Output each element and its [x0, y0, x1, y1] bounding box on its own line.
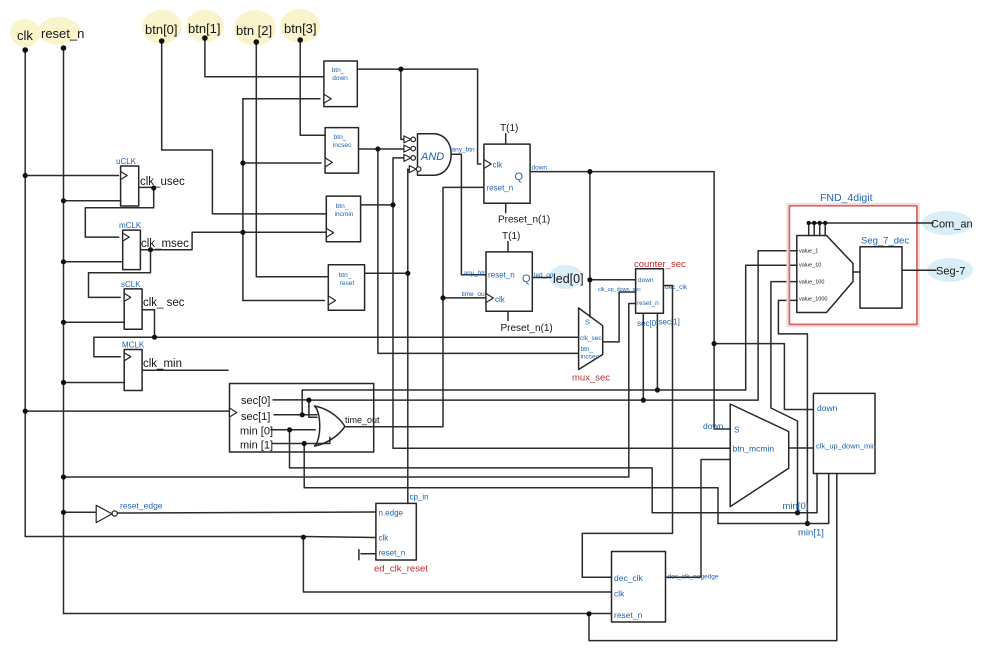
flip-flop divider mCLK — [119, 221, 142, 270]
wire btn clock to btn_incsec — [243, 162, 321, 164]
svg-text:min[1]: min[1] — [798, 528, 824, 539]
svg-text:incmin: incmin — [335, 211, 354, 218]
svg-text:btn_mcmin: btn_mcmin — [733, 444, 775, 454]
mux btn_mcmin — [730, 404, 789, 507]
gate AND U1 — [418, 134, 452, 176]
svg-text:value_1: value_1 — [799, 249, 818, 255]
wire min0 into OR — [271, 429, 315, 431]
node btn1 start — [202, 35, 208, 41]
junction btn_incsec out — [375, 146, 380, 151]
svg-text:btn_: btn_ — [334, 134, 347, 141]
svg-text:sec[0]: sec[0] — [637, 319, 658, 328]
wire reset_n to uCLK — [64, 200, 121, 202]
wire btn clock vertical — [242, 99, 244, 301]
svg-text:T(1): T(1) — [502, 231, 520, 242]
wire reset_n to MCLK — [64, 382, 125, 384]
svg-text:mux_sec: mux_sec — [572, 373, 610, 384]
wire reset_n branch to clk_up_down_min bottom — [589, 474, 837, 641]
wire btn clock to btn_down — [243, 98, 320, 100]
svg-text:clk: clk — [17, 28, 33, 43]
svg-text:clk: clk — [495, 295, 506, 304]
junction reset sCLK — [61, 320, 66, 325]
junction min0 riser — [795, 510, 800, 515]
node btn2 start — [253, 39, 259, 45]
wire time_out net vertical — [345, 187, 484, 426]
wire min0 row — [652, 474, 817, 513]
block Seg_7_dec — [860, 247, 902, 308]
wire min0 riser to FND value_100 — [771, 282, 798, 513]
node btn2 highlight — [234, 10, 276, 46]
node btn0 highlight — [142, 10, 182, 44]
svg-text:Com_an: Com_an — [931, 219, 973, 231]
svg-text:Seg-7: Seg-7 — [936, 266, 965, 278]
svg-text:value_100: value_100 — [799, 280, 824, 286]
svg-text:clk: clk — [379, 534, 390, 543]
wire min1 stub — [272, 437, 330, 443]
block btn_incsec — [325, 128, 358, 174]
svg-text:reset_edge: reset_edge — [120, 501, 163, 511]
wire sec1 net — [656, 313, 658, 390]
junction clk_msec — [148, 247, 153, 252]
wire sec1 long row to FND value_10 — [302, 265, 797, 415]
wire sec1 into OR — [274, 414, 317, 416]
svg-text:reset_n: reset_n — [487, 184, 514, 193]
svg-text:sec[0]: sec[0] — [241, 395, 270, 407]
wire AND in4 stub — [408, 169, 410, 170]
wire dec_clk_negedge out — [666, 460, 731, 578]
svg-text:Preset_n(1): Preset_n(1) — [501, 323, 553, 334]
svg-text:reset_n: reset_n — [637, 300, 659, 307]
wire down branch to counter_sec — [589, 172, 591, 317]
node reset_n start — [61, 45, 67, 51]
junction reset row — [61, 474, 66, 479]
svg-text:btn_: btn_ — [581, 346, 594, 353]
wire clk to uCLK clock — [25, 175, 118, 177]
junction btn_down out — [398, 67, 403, 72]
wire btn_incmin to AND in3 — [393, 158, 404, 205]
junction clk_usec — [151, 185, 156, 190]
svg-text:reset_n: reset_n — [41, 26, 84, 41]
svg-text:clk: clk — [614, 589, 625, 599]
block time_out comparator — [230, 384, 374, 453]
mux mux_sec — [579, 308, 603, 370]
svg-text:btn[0]: btn[0] — [145, 22, 178, 37]
junction com_an 2 — [812, 221, 816, 225]
wire dec_clk net to dec block — [582, 286, 672, 578]
junction clk branch dec — [301, 535, 306, 540]
junction timeout ff2 — [440, 295, 445, 300]
mux digit value mux — [797, 236, 853, 313]
block FND_4digit outline — [788, 205, 918, 326]
wire FF1 preset stub — [505, 203, 507, 212]
node Com_an highlight — [922, 211, 972, 235]
block btn_down — [324, 61, 357, 107]
svg-text:any_btn: any_btn — [464, 270, 488, 277]
wire FF2 T stub — [507, 242, 509, 252]
svg-text:clk_up_down_sec: clk_up_down_sec — [598, 287, 641, 293]
wire com_an row — [809, 222, 933, 224]
junction sec0 inside — [306, 398, 311, 403]
wire clk_msec net to sCLK — [89, 250, 151, 298]
wire sec0 into OR — [309, 400, 317, 417]
flip-flop U2 T down — [484, 144, 530, 203]
junction min1 inside — [302, 441, 307, 446]
svg-text:clk_up_down_min: clk_up_down_min — [816, 442, 876, 451]
svg-text:btn_: btn_ — [339, 272, 352, 279]
block btn_incmin — [326, 196, 360, 242]
svg-text:min [0]: min [0] — [240, 426, 273, 438]
flip-flop divider sCLK — [121, 280, 142, 329]
svg-text:reset_n: reset_n — [614, 610, 643, 620]
wire sec0 long row to FND value_1 — [309, 251, 797, 400]
node btn0 start — [159, 38, 165, 44]
svg-text:down: down — [332, 75, 348, 82]
wire mux to seg7dec — [853, 271, 860, 273]
wire down to counter down input — [590, 279, 636, 281]
wire clk_min stub — [142, 369, 228, 371]
svg-text:T(1): T(1) — [500, 123, 518, 134]
junction com_an 1 — [807, 221, 811, 225]
node Seg-7 highlight — [927, 258, 973, 282]
svg-text:btn[3]: btn[3] — [284, 21, 317, 36]
wire min1 riser to FND value_1000 — [778, 300, 807, 523]
svg-text:Seg_7_dec: Seg_7_dec — [861, 236, 909, 247]
wire sec0 stub — [273, 399, 309, 401]
svg-text:FND_4digit: FND_4digit — [820, 192, 873, 204]
node btn3 highlight — [280, 9, 320, 43]
wire any_btn to FF2 — [451, 154, 486, 274]
wire seg7 out — [902, 269, 936, 271]
inverter bubble AND in3 — [404, 154, 416, 161]
svg-text:MCLK: MCLK — [122, 341, 145, 350]
node clk start — [22, 47, 28, 53]
wire clk_sec to MCLK clock — [94, 337, 155, 357]
svg-text:clk: clk — [493, 161, 504, 170]
svg-text:dec_clk: dec_clk — [614, 573, 644, 583]
svg-text:min [1]: min [1] — [240, 440, 273, 452]
wire led stub — [532, 277, 551, 279]
inverter bubble AND in1 — [404, 136, 416, 143]
svg-text:counter_sec: counter_sec — [634, 259, 686, 270]
svg-text:clk_ sec: clk_ sec — [143, 297, 185, 309]
junction sec0 row — [641, 398, 646, 403]
junction reset dec — [586, 611, 591, 616]
wire btn0 net — [162, 41, 327, 214]
wire clk vertical — [24, 50, 26, 537]
svg-text:AND: AND — [420, 151, 444, 163]
svg-text:mCLK: mCLK — [119, 221, 142, 230]
block ed_clk_reset — [376, 503, 416, 560]
svg-text:led[0]: led[0] — [553, 272, 584, 286]
svg-text:btn [2]: btn [2] — [236, 23, 272, 38]
node led0 highlight — [549, 265, 583, 289]
svg-text:Preset_n(1): Preset_n(1) — [498, 215, 550, 226]
wire min1 long net — [304, 444, 718, 524]
junction reset inverter — [61, 510, 66, 515]
wire mux_sec output to counter — [603, 292, 636, 342]
junction btn_incmin out — [390, 202, 395, 207]
svg-text:incsec: incsec — [581, 354, 600, 361]
svg-text:sCLK: sCLK — [121, 280, 141, 289]
wire clk to time_out clock — [25, 410, 229, 412]
wire down branch to clk_up_down_min — [714, 344, 813, 410]
inverter reset_edge — [96, 505, 117, 522]
node btn1 highlight — [186, 10, 224, 42]
block dec_clk_negedge detector — [612, 552, 666, 623]
wire btn_reset output — [365, 272, 408, 274]
junction down counter in — [587, 277, 592, 282]
svg-text:clk_usec: clk_usec — [140, 176, 185, 188]
svg-text:sec[1]: sec[1] — [241, 411, 270, 423]
svg-text:sec[1]: sec[1] — [659, 318, 680, 327]
constant 1 tick — [358, 550, 360, 560]
wire btn_incmin output — [361, 204, 393, 206]
inverter bubble AND in2 — [404, 145, 416, 152]
wire reset_n to sCLK — [64, 321, 125, 323]
svg-text:value_10: value_10 — [799, 263, 821, 269]
wire clk_usec net — [85, 187, 153, 237]
svg-text:down: down — [638, 277, 654, 284]
wire btn clock to btn_reset — [243, 300, 324, 302]
junction com_an 4 — [823, 221, 827, 225]
flip-flop U3 T led — [486, 252, 532, 311]
junction btn_reset out — [405, 271, 410, 276]
flip-flop divider MCLK — [122, 341, 145, 391]
svg-text:Q: Q — [522, 273, 531, 285]
inverter bubble AND in4 — [409, 166, 421, 173]
wire clk_sec net row to mux_sec — [142, 310, 578, 337]
block counter_sec — [636, 269, 664, 313]
wire reset_n long row to counter_sec — [64, 304, 636, 478]
wire FF2 preset stub — [507, 311, 509, 320]
wire constant 1 to reset_n — [361, 553, 376, 555]
flip-flop divider uCLK — [116, 157, 139, 206]
wire reset_n vertical — [63, 48, 65, 614]
junction com_an 3 — [818, 221, 822, 225]
wire com_an stubs — [809, 223, 826, 236]
svg-text:down: down — [532, 165, 548, 172]
junction down minblock branch — [712, 341, 717, 346]
wire clk branch to dec_clk block — [303, 538, 611, 593]
wire reset_n to inverter — [64, 511, 97, 513]
wire btn_incsec branch to mux_sec — [378, 149, 579, 353]
junction sec1 inside — [300, 412, 305, 417]
svg-text:clk_min: clk_min — [143, 358, 182, 370]
svg-text:time_out: time_out — [462, 291, 487, 298]
svg-text:incsec: incsec — [333, 142, 352, 149]
svg-text:clk_sec: clk_sec — [580, 335, 602, 342]
wire reset_edge to ed_clk_reset — [117, 512, 376, 513]
junction reset mCLK — [61, 259, 66, 264]
wire min0 long net — [290, 430, 653, 513]
svg-text:btn_: btn_ — [336, 203, 349, 210]
junction clk timeout — [23, 409, 28, 414]
svg-text:value_1000: value_1000 — [799, 297, 827, 303]
node clk highlight — [10, 19, 40, 47]
junction clk uCLK — [23, 173, 28, 178]
svg-text:reset: reset — [340, 280, 355, 287]
junction reset uCLK — [61, 198, 66, 203]
svg-text:reset_n: reset_n — [379, 549, 406, 558]
svg-text:clk_msec: clk_msec — [141, 238, 189, 250]
svg-text:btn_: btn_ — [332, 67, 345, 74]
svg-text:btn[1]: btn[1] — [188, 21, 221, 36]
wire reset_n bottom row to dec_clk block — [64, 613, 612, 615]
svg-text:time_out: time_out — [345, 415, 380, 425]
wire btn_incsec output to AND in2 — [359, 148, 404, 150]
wire clk_msec to btn clocks row — [151, 232, 327, 249]
junction btnclk incmin — [240, 230, 245, 235]
gate OR time_out — [315, 406, 345, 446]
node btn3 start — [297, 37, 303, 43]
junction min0 inside — [287, 427, 292, 432]
svg-text:ed_clk_reset: ed_clk_reset — [374, 564, 428, 575]
svg-text:down: down — [703, 421, 724, 431]
wire clk bottom row to ed_clk_reset — [25, 537, 376, 538]
svg-text:reset_n: reset_n — [488, 271, 515, 280]
node reset_n highlight — [38, 17, 80, 45]
wire btn2 net — [256, 42, 328, 277]
svg-text:any_btn: any_btn — [452, 147, 476, 154]
wire btn_reset cp_in vertical — [407, 169, 409, 503]
wire min1 row — [718, 474, 829, 524]
junction reset MCLK — [61, 380, 66, 385]
svg-text:S: S — [585, 318, 590, 327]
junction down counter branch — [587, 169, 592, 174]
junction btnclk incsec — [240, 160, 245, 165]
junction min1 riser — [805, 521, 810, 526]
junction clk_sec — [152, 335, 157, 340]
svg-text:S: S — [734, 426, 739, 435]
svg-text:Q: Q — [515, 171, 524, 183]
svg-text:cp_in: cp_in — [410, 493, 429, 502]
wire btn_incmin branch to big mux — [393, 205, 730, 448]
block clk_up_down_min — [813, 393, 876, 473]
svg-text:down: down — [817, 403, 838, 413]
wire sec0 net — [642, 313, 644, 400]
block btn_reset — [328, 265, 364, 311]
wire time_out to FF2 clk — [443, 297, 486, 299]
svg-text:min[0]: min[0] — [783, 501, 809, 512]
wire FF1 T stub — [505, 134, 507, 145]
wire mux min output — [789, 447, 814, 449]
junction sec1 row — [655, 387, 660, 392]
wire reset_n to mCLK — [64, 261, 123, 263]
wire btn3 net — [300, 40, 325, 135]
svg-text:uCLK: uCLK — [116, 157, 137, 166]
wire down long row — [530, 172, 730, 429]
wire btn1 net — [205, 38, 324, 77]
wire btn_down to AND in1 — [401, 69, 404, 139]
wire btn_down output to FF1 clk — [357, 69, 481, 164]
svg-text:n.edge: n.edge — [379, 509, 404, 518]
